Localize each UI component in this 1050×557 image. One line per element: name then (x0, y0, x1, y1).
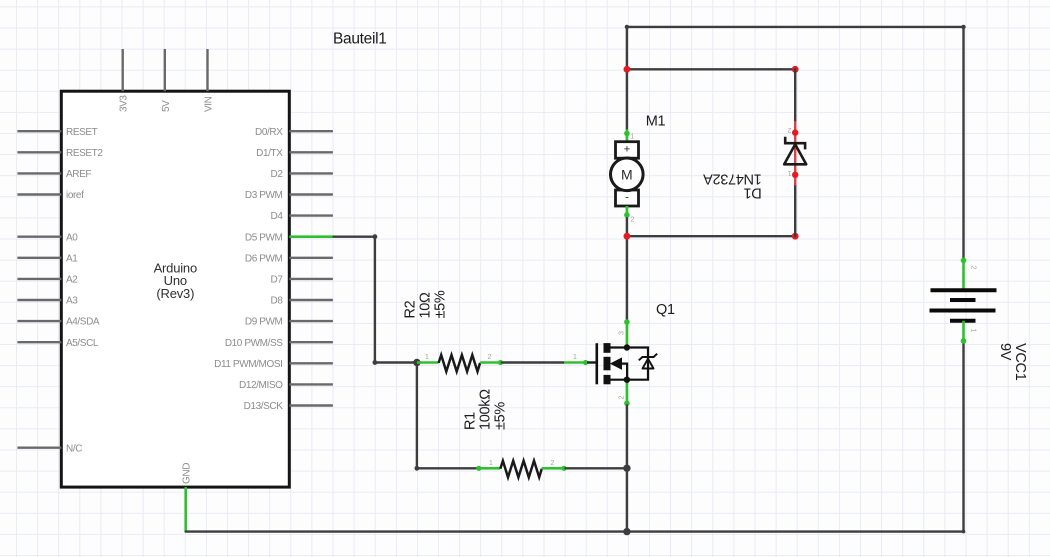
D1 value label (703, 171, 762, 201)
svg-text:(Rev3): (Rev3) (156, 286, 194, 301)
svg-text:A1: A1 (66, 253, 78, 264)
junction red dot (624, 66, 631, 73)
svg-text:D8: D8 (271, 296, 284, 307)
svg-text:1: 1 (573, 354, 577, 361)
junction dot (623, 528, 630, 535)
Arduino top pin 5V (161, 49, 172, 112)
resistor R1 (476, 461, 566, 478)
Arduino GND pin leg (connected, green) (184, 487, 187, 531)
zener diode D1 1N4732A (784, 121, 806, 185)
Arduino top pin 3V3 (119, 49, 130, 112)
svg-text:M1: M1 (646, 114, 666, 130)
bend point (373, 360, 378, 365)
svg-text:1: 1 (631, 134, 635, 141)
svg-text:D10 PWM/SS: D10 PWM/SS (225, 338, 283, 349)
wire battery- to GND rail (962, 343, 964, 531)
wire D5 to R2/R1 node (334, 237, 417, 363)
svg-text:A3: A3 (66, 296, 78, 307)
svg-text:GND: GND (182, 463, 193, 484)
R1 value label (462, 389, 508, 430)
svg-text:D6 PWM: D6 PWM (245, 253, 283, 264)
Arduino Uno module body (61, 91, 289, 487)
svg-text:2: 2 (619, 396, 626, 400)
Arduino right pins (289, 131, 333, 405)
svg-text:2: 2 (488, 354, 492, 361)
battery VCC1 (930, 258, 997, 344)
bend point (962, 530, 966, 534)
Arduino left pins (17, 131, 61, 448)
svg-text:100kΩ: 100kΩ (477, 389, 493, 430)
wire motor to drain (626, 218, 628, 320)
wire battery+ top rail (627, 27, 964, 258)
node junction R2/R1 (413, 359, 420, 366)
svg-text:D1/TX: D1/TX (256, 148, 283, 159)
svg-text:2: 2 (970, 266, 977, 270)
junction dot (623, 465, 630, 472)
svg-text:1: 1 (425, 354, 429, 361)
Arduino right pin labels (214, 127, 283, 412)
svg-text:N/C: N/C (66, 443, 82, 454)
svg-text:R2: R2 (402, 300, 418, 318)
svg-text:D3 PWM: D3 PWM (245, 190, 283, 201)
svg-text:A0: A0 (66, 232, 78, 243)
R2 value label (402, 290, 448, 318)
svg-text:2: 2 (631, 217, 635, 224)
svg-text:5V: 5V (161, 100, 172, 112)
junction red dot (624, 233, 631, 240)
svg-text:Bauteil1: Bauteil1 (333, 31, 387, 48)
svg-text:M: M (621, 166, 633, 182)
svg-text:9V: 9V (997, 343, 1013, 361)
bend point (415, 466, 420, 471)
svg-text:A2: A2 (66, 275, 78, 286)
Arduino left pin labels (66, 127, 103, 455)
svg-text:D7: D7 (271, 275, 284, 286)
svg-text:D12/MISO: D12/MISO (239, 380, 283, 391)
svg-text:1: 1 (489, 460, 493, 467)
Arduino D5 pin leg (connected, green) (289, 235, 333, 238)
svg-text:±5%: ±5% (492, 402, 508, 430)
wire source down to GND rail (626, 406, 628, 532)
svg-text:VIN: VIN (204, 96, 215, 112)
svg-text:D13/SCK: D13/SCK (244, 401, 284, 412)
svg-text:ioref: ioref (66, 190, 84, 201)
junction red dot (792, 66, 799, 73)
junction red dot (792, 233, 799, 240)
bend point (625, 25, 629, 29)
svg-text:R1: R1 (462, 412, 478, 430)
wire GND rail (186, 530, 964, 532)
svg-text:1N4732A: 1N4732A (703, 171, 762, 187)
svg-text:±5%: ±5% (432, 290, 448, 318)
svg-text:D5 PWM: D5 PWM (245, 232, 283, 243)
bend point (961, 25, 965, 29)
svg-text:AREF: AREF (66, 169, 91, 180)
wire R1 to source net (566, 467, 627, 469)
wire R2 to Q1 gate (502, 361, 564, 363)
motor M1 (611, 129, 644, 218)
wire snubber bottom (627, 235, 795, 237)
wire top rail to motor (626, 27, 628, 129)
svg-text:10Ω: 10Ω (417, 292, 433, 319)
resistor R2 (417, 355, 503, 372)
svg-text:2: 2 (788, 126, 792, 133)
svg-text:+: + (624, 144, 630, 156)
VCC1 value label (997, 343, 1028, 381)
svg-text:-: - (625, 192, 629, 204)
svg-text:A5/SCL: A5/SCL (66, 338, 99, 349)
bend point (373, 234, 378, 239)
svg-text:1: 1 (788, 169, 792, 176)
wire diode branch (794, 69, 796, 121)
svg-text:1: 1 (970, 329, 977, 333)
wire snubber top (627, 68, 795, 70)
svg-text:3: 3 (619, 331, 626, 335)
svg-text:Q1: Q1 (656, 302, 675, 318)
svg-text:D2: D2 (271, 169, 284, 180)
svg-text:D4: D4 (271, 211, 284, 222)
svg-text:3V3: 3V3 (119, 95, 130, 112)
svg-text:D11 PWM/MOSI: D11 PWM/MOSI (214, 359, 282, 370)
svg-text:A4/SDA: A4/SDA (66, 317, 100, 328)
transistor Q1 n-mosfet (564, 319, 657, 406)
wire node to R1 (417, 363, 478, 469)
svg-text:VCC1: VCC1 (1012, 343, 1028, 381)
svg-text:RESET: RESET (66, 127, 98, 138)
svg-text:RESET2: RESET2 (66, 148, 103, 159)
svg-text:D9 PWM: D9 PWM (245, 317, 283, 328)
Arduino center label (154, 260, 197, 301)
svg-text:2: 2 (551, 460, 555, 467)
svg-text:D0/RX: D0/RX (255, 127, 283, 138)
Arduino top pin VIN (204, 49, 215, 112)
